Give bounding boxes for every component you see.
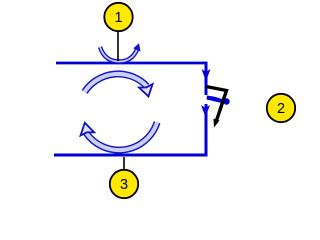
flux circulation bottom arc highlight [86, 122, 157, 150]
field line around top conductor (U arc) outer [100, 47, 138, 62]
spark swoosh (blue) at gap [207, 96, 229, 104]
flash / spark symbol (black 7-shape) at air gap [206, 87, 227, 124]
induced current arrow lower (on right wire, pointing down) [201, 105, 210, 117]
leader line from label 1 to top conductor [117, 31, 119, 61]
leader line from label 3 to bottom conductor [123, 157, 125, 170]
flux circulation bottom arrowhead (pointing up-left) [78, 121, 94, 135]
top conductor wire [56, 62, 206, 65]
right conductor wire lower segment [205, 104, 208, 156]
label 3 circle [110, 170, 138, 198]
induced current arrow upper (on right wire, pointing down) [202, 69, 211, 81]
field line arrowhead (right end of U arc) [133, 43, 140, 51]
label 1 circle [104, 3, 132, 31]
flux circulation top arrowhead (pointing down-right) [139, 84, 155, 98]
svg-text:2: 2 [277, 101, 285, 117]
flux circulation top arc outer [85, 74, 147, 92]
flash arrow tip [214, 119, 220, 128]
svg-text:3: 3 [120, 177, 128, 193]
field line around top conductor (U arc) inner highlight [100, 47, 138, 62]
svg-text:1: 1 [114, 10, 122, 26]
flux circulation top arc highlight [85, 74, 147, 92]
right conductor wire upper segment [205, 62, 208, 95]
bottom conductor wire [54, 154, 208, 157]
label 2 circle [267, 94, 295, 122]
flux circulation bottom arc outer [86, 122, 157, 150]
